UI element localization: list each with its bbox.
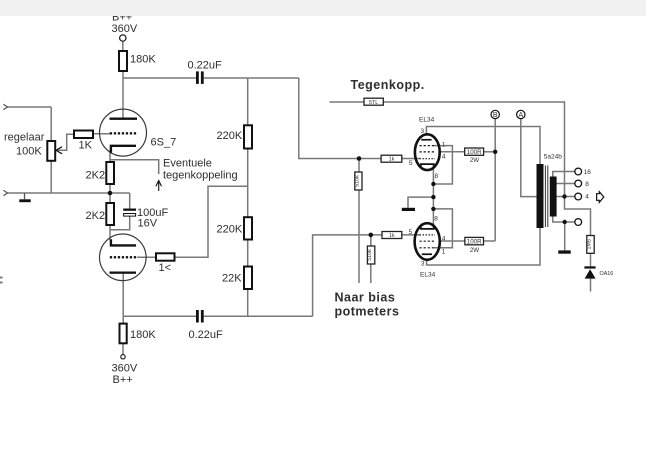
svg-text:100K: 100K — [16, 146, 42, 158]
svg-text:2K2: 2K2 — [86, 210, 106, 222]
svg-text:360V: 360V — [112, 23, 138, 35]
svg-text:2W: 2W — [470, 157, 479, 164]
svg-text:3: 3 — [421, 261, 425, 268]
svg-text:220K: 220K — [217, 130, 243, 142]
svg-text:5a24b: 5a24b — [544, 154, 562, 161]
svg-text:2K2: 2K2 — [86, 170, 106, 182]
svg-text:6S_7: 6S_7 — [151, 137, 177, 149]
svg-text:4: 4 — [585, 193, 589, 200]
svg-text:360V: 360V — [112, 363, 138, 375]
svg-text:4: 4 — [442, 154, 446, 161]
svg-text:180K: 180K — [130, 54, 156, 66]
svg-text:1K: 1K — [79, 140, 93, 152]
svg-text:5: 5 — [409, 229, 413, 236]
svg-text:0.22uF: 0.22uF — [188, 60, 223, 72]
svg-text:EL34: EL34 — [419, 117, 435, 124]
svg-text:B++: B++ — [113, 374, 133, 386]
svg-text:B: B — [493, 112, 498, 119]
svg-text:1: 1 — [442, 249, 446, 256]
svg-text:0.22uF: 0.22uF — [189, 329, 224, 341]
svg-text:1k: 1k — [389, 157, 395, 163]
svg-text:8: 8 — [434, 216, 438, 223]
svg-text:1: 1 — [442, 141, 446, 148]
svg-text:180K: 180K — [130, 329, 156, 341]
svg-text:16: 16 — [584, 169, 592, 176]
svg-text:8: 8 — [585, 181, 589, 188]
svg-text:5TL: 5TL — [369, 100, 378, 106]
svg-text:Eventuele: Eventuele — [163, 158, 212, 170]
svg-text:potmeters: potmeters — [335, 305, 400, 319]
svg-text:OA16: OA16 — [600, 271, 614, 277]
svg-text:2W: 2W — [470, 247, 479, 254]
svg-text:8: 8 — [435, 173, 439, 180]
svg-text:220K: 220K — [217, 224, 243, 236]
svg-text:A: A — [518, 112, 523, 119]
svg-text:1<: 1< — [159, 262, 172, 274]
svg-text:510k: 510k — [367, 249, 373, 261]
svg-text:16V: 16V — [138, 218, 158, 230]
svg-text:Tegenkopp.: Tegenkopp. — [351, 78, 425, 92]
svg-text:5: 5 — [409, 160, 413, 167]
svg-text:1M5: 1M5 — [587, 239, 593, 250]
svg-text:tegenkoppeling: tegenkoppeling — [163, 170, 238, 182]
svg-text:100R: 100R — [467, 239, 482, 246]
svg-text:100R: 100R — [467, 149, 482, 156]
svg-text:1k: 1k — [389, 233, 395, 239]
svg-text:EL34: EL34 — [420, 272, 436, 279]
svg-text:510k: 510k — [354, 175, 360, 187]
svg-text:3: 3 — [421, 128, 425, 135]
svg-text:regelaar: regelaar — [4, 132, 45, 144]
svg-text:22K: 22K — [222, 273, 242, 285]
svg-text:Naar bias: Naar bias — [335, 291, 396, 305]
svg-text:4: 4 — [442, 235, 446, 242]
